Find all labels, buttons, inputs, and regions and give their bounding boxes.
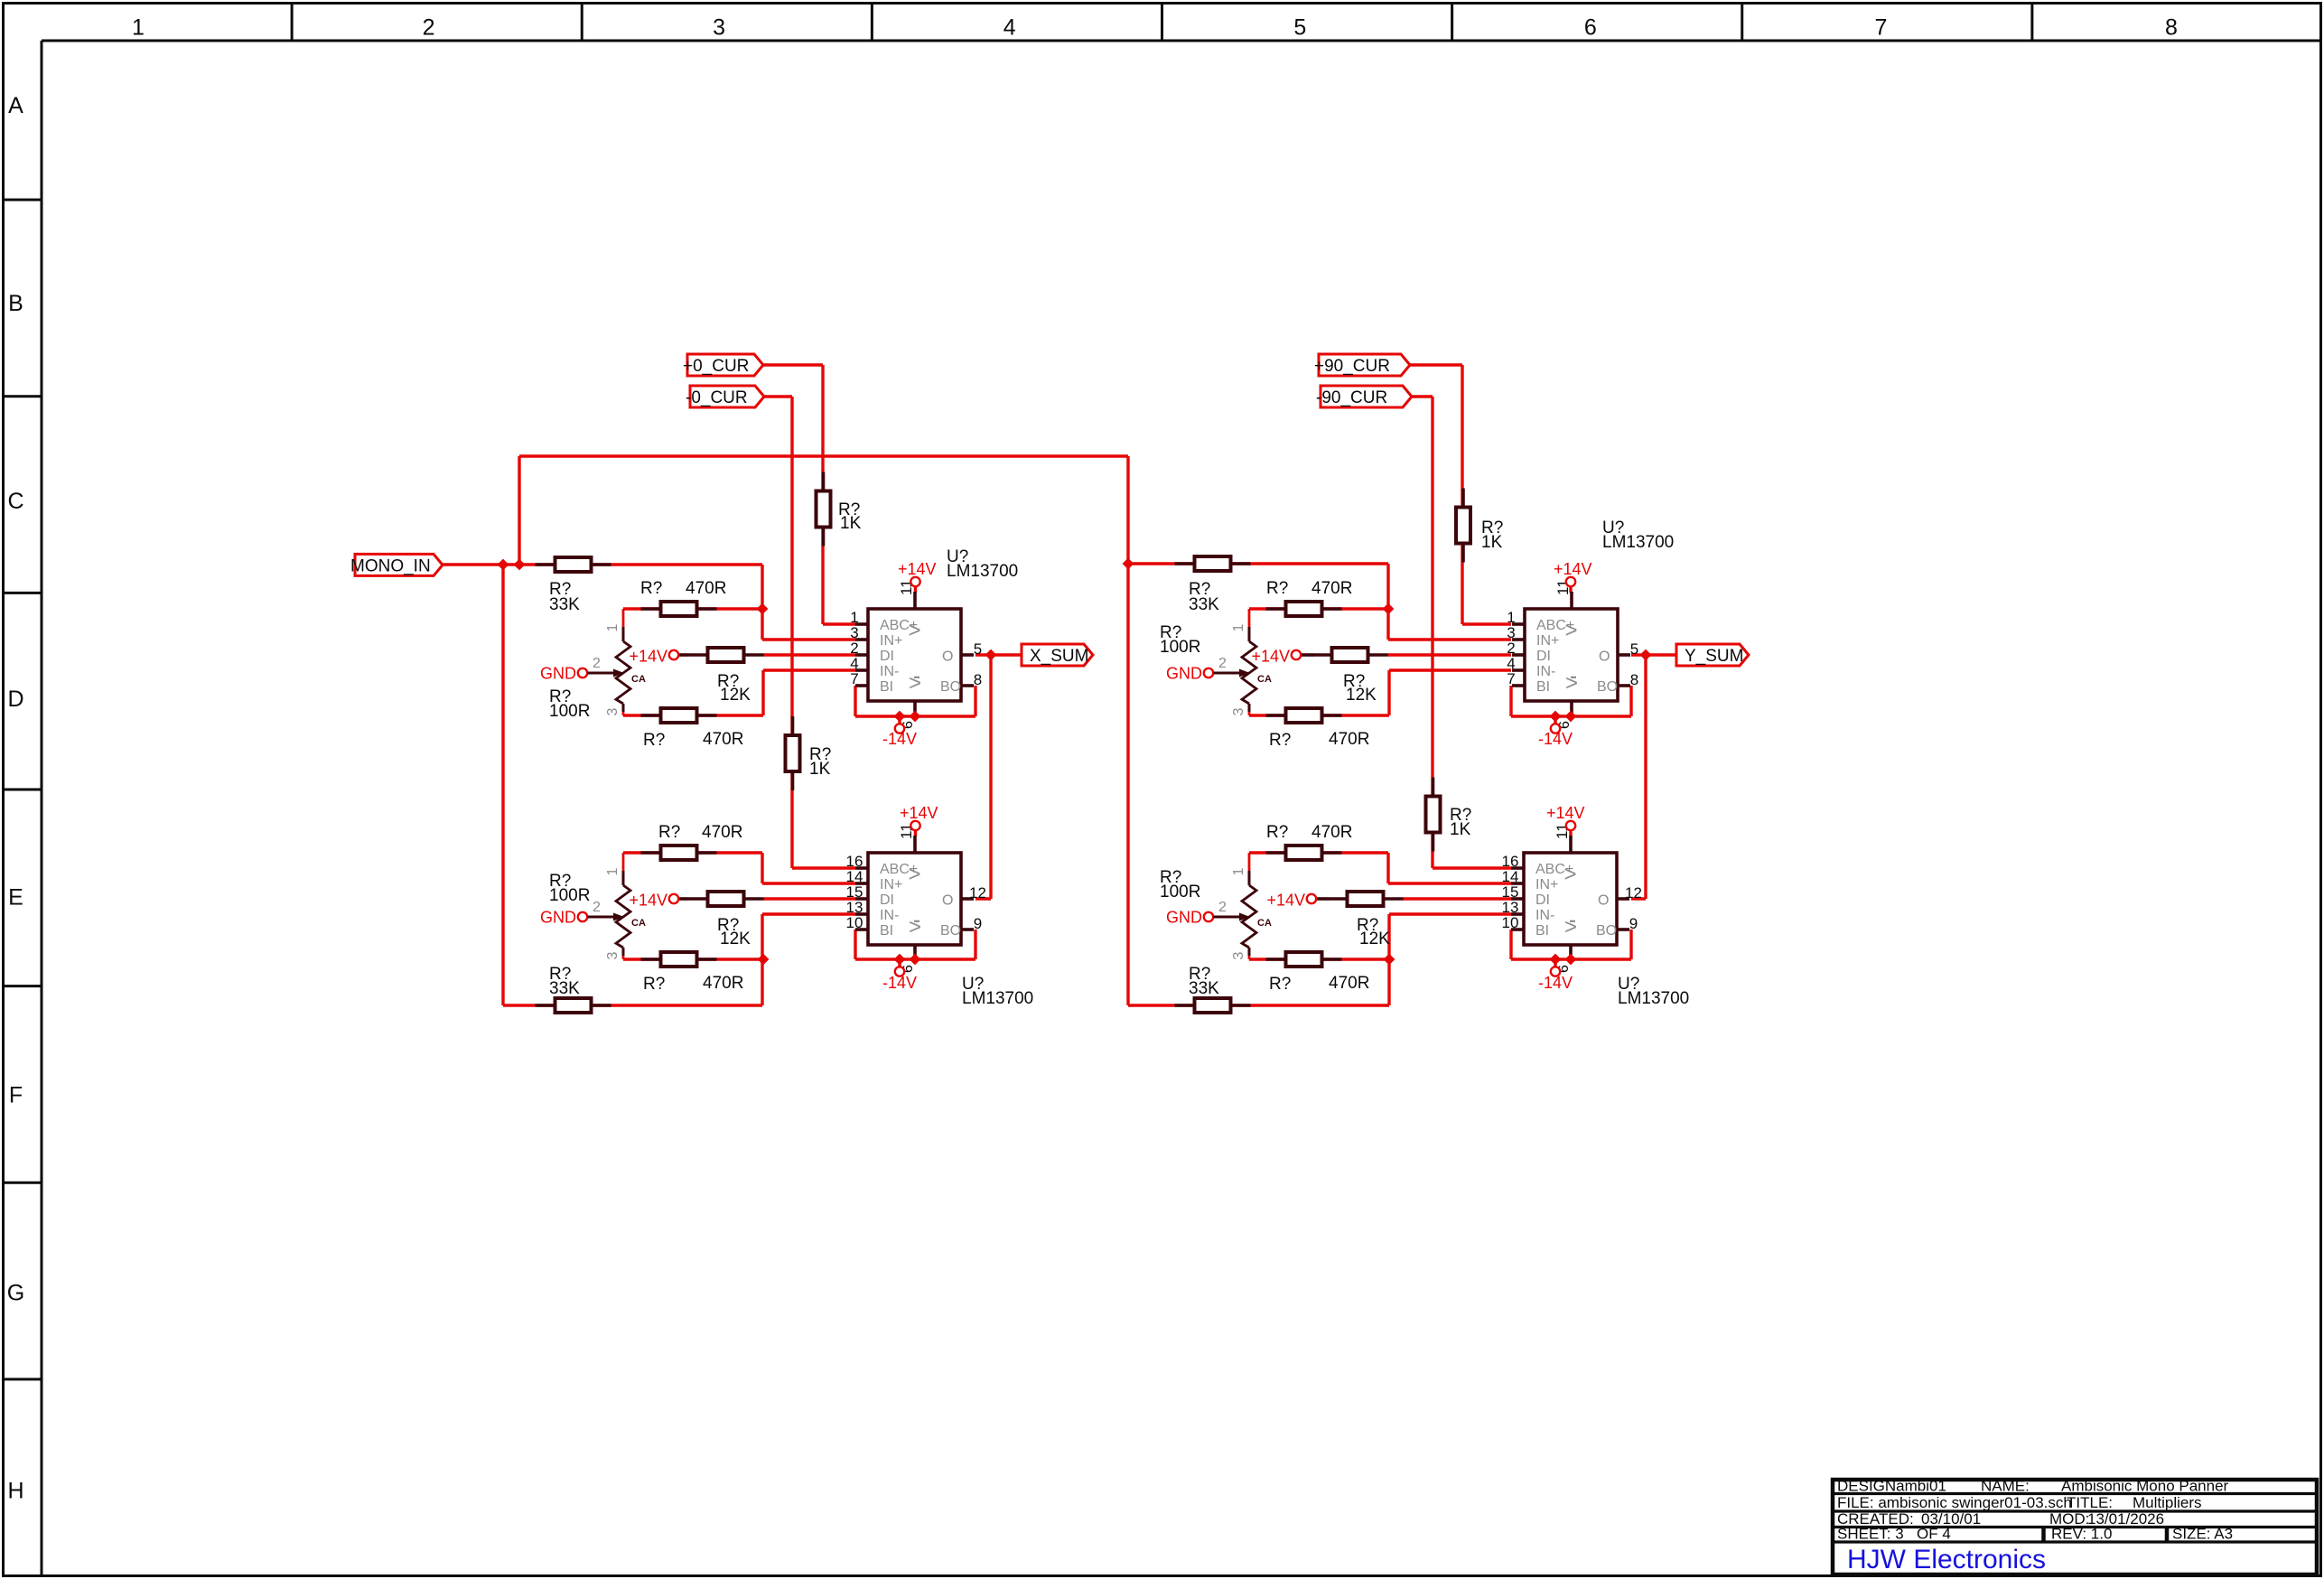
- svg-text:10: 10: [846, 914, 863, 931]
- svg-text:SHEET: 3: SHEET: 3: [1837, 1526, 1904, 1543]
- svg-text:>: >: [1565, 619, 1578, 643]
- svg-text:1: 1: [1231, 623, 1246, 631]
- svg-text:R?: R?: [640, 579, 662, 598]
- svg-text:IN+: IN+: [1535, 877, 1558, 892]
- svg-text:8: 8: [2165, 15, 2178, 41]
- svg-text:7: 7: [1507, 670, 1515, 687]
- svg-text:+14V: +14V: [1266, 892, 1305, 910]
- svg-text:R?: R?: [643, 731, 665, 750]
- svg-text:1: 1: [1231, 867, 1246, 875]
- svg-text:IN+: IN+: [880, 877, 902, 892]
- svg-text:O: O: [1599, 649, 1610, 665]
- svg-text:LM13700: LM13700: [947, 562, 1018, 581]
- svg-text:12: 12: [1625, 884, 1642, 902]
- svg-text:5: 5: [974, 640, 982, 658]
- svg-text:DI: DI: [880, 892, 894, 908]
- svg-text:5: 5: [1630, 640, 1638, 658]
- svg-text:FILE: ambisonic swinger01-03.s: FILE: ambisonic swinger01-03.sch: [1837, 1494, 2072, 1511]
- svg-text:7: 7: [850, 670, 858, 687]
- svg-text:R?: R?: [1269, 731, 1291, 750]
- svg-text:LM13700: LM13700: [962, 989, 1033, 1008]
- svg-text:-0_CUR: -0_CUR: [686, 388, 748, 407]
- svg-text:2: 2: [593, 900, 601, 915]
- svg-text:1K: 1K: [840, 514, 862, 533]
- svg-text:9: 9: [1629, 915, 1638, 932]
- svg-text:12K: 12K: [720, 930, 751, 948]
- svg-text:470R: 470R: [702, 823, 742, 842]
- svg-text:IN+: IN+: [1536, 633, 1559, 649]
- svg-text:-14V: -14V: [882, 974, 917, 992]
- svg-text:12K: 12K: [1346, 686, 1377, 705]
- svg-text:B: B: [8, 291, 23, 316]
- svg-text:+0_CUR: +0_CUR: [683, 357, 749, 376]
- svg-text:R?: R?: [1266, 579, 1288, 598]
- svg-text:O: O: [942, 893, 953, 909]
- svg-text:10: 10: [1502, 914, 1519, 931]
- svg-text:NAME:: NAME:: [1981, 1478, 2030, 1495]
- svg-text:G: G: [7, 1280, 24, 1305]
- svg-text:3: 3: [1231, 707, 1246, 715]
- svg-text:470R: 470R: [1311, 823, 1352, 842]
- svg-text:R?: R?: [658, 823, 680, 842]
- svg-text:100R: 100R: [549, 702, 590, 721]
- svg-text:+14V: +14V: [629, 648, 667, 666]
- svg-text:33K: 33K: [1189, 979, 1219, 998]
- svg-text:DI: DI: [1536, 649, 1551, 664]
- svg-text:+90_CUR: +90_CUR: [1314, 357, 1390, 376]
- svg-text:-14V: -14V: [1538, 730, 1573, 748]
- svg-text:+14V: +14V: [900, 804, 938, 822]
- svg-text:R?: R?: [1269, 975, 1291, 994]
- svg-text:33K: 33K: [1189, 595, 1219, 614]
- svg-text:IN+: IN+: [880, 633, 902, 649]
- svg-text:LM13700: LM13700: [1602, 533, 1674, 552]
- svg-text:GND: GND: [1166, 909, 1202, 927]
- svg-text:BI: BI: [880, 923, 893, 939]
- svg-text:O: O: [942, 649, 953, 665]
- svg-text:12K: 12K: [1359, 930, 1390, 948]
- svg-text:4: 4: [1003, 15, 1016, 41]
- svg-text:>: >: [909, 671, 921, 696]
- svg-text:Y_SUM: Y_SUM: [1685, 647, 1743, 666]
- svg-text:OF 4: OF 4: [1917, 1526, 1951, 1543]
- svg-text:+14V: +14V: [1546, 804, 1585, 822]
- svg-text:BO: BO: [1596, 923, 1617, 939]
- svg-text:>: >: [909, 619, 921, 643]
- svg-text:-14V: -14V: [882, 730, 917, 748]
- svg-text:E: E: [8, 884, 23, 910]
- svg-text:TITLE:: TITLE:: [2067, 1494, 2113, 1511]
- svg-text:+14V: +14V: [629, 892, 667, 910]
- svg-text:1K: 1K: [1481, 533, 1503, 552]
- svg-text:CA: CA: [1257, 918, 1272, 929]
- svg-text:Ambisonic Mono Panner: Ambisonic Mono Panner: [2061, 1478, 2229, 1495]
- svg-text:3: 3: [605, 707, 621, 715]
- svg-text:100R: 100R: [1160, 883, 1200, 902]
- svg-text:BO: BO: [940, 679, 961, 695]
- svg-text:BI: BI: [1536, 679, 1550, 695]
- svg-text:100R: 100R: [549, 886, 590, 905]
- svg-text:1K: 1K: [1450, 820, 1471, 839]
- svg-text:REV: 1.0: REV: 1.0: [2051, 1526, 2112, 1543]
- svg-text:A: A: [8, 93, 23, 118]
- svg-text:-14V: -14V: [1538, 974, 1573, 992]
- svg-text:470R: 470R: [703, 730, 743, 749]
- svg-text:GND: GND: [540, 665, 576, 683]
- svg-text:>: >: [1564, 863, 1577, 887]
- svg-text:+14V: +14V: [1251, 648, 1290, 666]
- svg-text:3: 3: [713, 15, 725, 41]
- svg-text:DI: DI: [880, 649, 894, 664]
- svg-text:7: 7: [1874, 15, 1887, 41]
- svg-text:F: F: [9, 1082, 23, 1107]
- svg-text:2: 2: [423, 15, 435, 41]
- svg-text:C: C: [7, 489, 23, 514]
- svg-text:6: 6: [1584, 15, 1597, 41]
- svg-text:R?: R?: [1266, 823, 1288, 842]
- svg-text:1: 1: [605, 623, 621, 631]
- svg-text:BO: BO: [940, 923, 961, 939]
- svg-text:2: 2: [1218, 656, 1227, 671]
- svg-text:470R: 470R: [1311, 579, 1352, 598]
- svg-text:IN-: IN-: [1535, 908, 1554, 923]
- svg-text:33K: 33K: [549, 979, 580, 998]
- svg-text:Multipliers: Multipliers: [2133, 1494, 2202, 1511]
- svg-text:9: 9: [974, 915, 982, 932]
- svg-text:H: H: [7, 1478, 23, 1503]
- svg-text:12: 12: [969, 884, 986, 902]
- svg-text:-90_CUR: -90_CUR: [1316, 388, 1387, 407]
- svg-text:470R: 470R: [686, 579, 726, 598]
- svg-text:470R: 470R: [1329, 974, 1369, 993]
- svg-text:470R: 470R: [1329, 730, 1369, 749]
- svg-text:BI: BI: [1535, 923, 1549, 939]
- svg-text:33K: 33K: [549, 595, 580, 614]
- svg-text:8: 8: [974, 671, 982, 688]
- svg-text:100R: 100R: [1160, 638, 1200, 657]
- svg-text:>: >: [909, 863, 921, 887]
- svg-text:BO: BO: [1597, 679, 1618, 695]
- svg-text:+14V: +14V: [898, 560, 937, 578]
- svg-text:DI: DI: [1535, 892, 1550, 908]
- svg-text:2: 2: [593, 656, 601, 671]
- svg-text:O: O: [1598, 893, 1609, 909]
- svg-text:1: 1: [605, 867, 621, 875]
- svg-text:CA: CA: [631, 918, 646, 929]
- svg-text:SIZE: A3: SIZE: A3: [2172, 1526, 2233, 1543]
- svg-text:1K: 1K: [809, 760, 831, 779]
- svg-text:X_SUM: X_SUM: [1030, 647, 1088, 666]
- svg-text:IN-: IN-: [1536, 664, 1555, 679]
- svg-text:>: >: [1564, 915, 1577, 939]
- svg-text:GND: GND: [1166, 665, 1202, 683]
- svg-text:2: 2: [1218, 900, 1227, 915]
- svg-text:IN-: IN-: [880, 908, 899, 923]
- svg-text:5: 5: [1293, 15, 1306, 41]
- svg-text:CA: CA: [1257, 674, 1272, 685]
- svg-text:3: 3: [605, 951, 621, 959]
- svg-text:1: 1: [132, 15, 145, 41]
- svg-text:CA: CA: [631, 674, 646, 685]
- svg-text:HJW Electronics: HJW Electronics: [1847, 1545, 2046, 1574]
- svg-text:12K: 12K: [720, 686, 751, 705]
- svg-text:>: >: [1565, 671, 1578, 696]
- svg-text:D: D: [7, 687, 23, 712]
- svg-text:>: >: [909, 915, 921, 939]
- svg-text:GND: GND: [540, 909, 576, 927]
- svg-text:MONO_IN: MONO_IN: [350, 556, 431, 575]
- svg-text:8: 8: [1630, 671, 1638, 688]
- svg-text:DESIGNambi01: DESIGNambi01: [1837, 1478, 1946, 1495]
- svg-text:470R: 470R: [703, 974, 743, 993]
- svg-text:LM13700: LM13700: [1618, 989, 1689, 1008]
- svg-text:IN-: IN-: [880, 664, 899, 679]
- svg-text:3: 3: [1231, 951, 1246, 959]
- svg-text:+14V: +14V: [1554, 560, 1592, 578]
- svg-text:R?: R?: [643, 975, 665, 994]
- svg-text:BI: BI: [880, 679, 893, 695]
